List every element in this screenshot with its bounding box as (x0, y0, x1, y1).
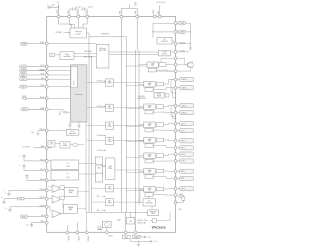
block gate drive (144, 138, 155, 144)
svg-text:+: + (53, 216, 54, 218)
pin right SLBO2+ (174, 104, 177, 107)
svg-text:+2.5 V REF: +2.5 V REF (22, 146, 30, 148)
pin VCP (86, 15, 89, 18)
label 4CO- box (177, 130, 180, 132)
pin right FOO- (174, 160, 177, 163)
wire dacpwm6 out (113, 187, 143, 189)
svg-text:LSI I/F: LSI I/F (74, 81, 76, 86)
label SLBO1- box (177, 87, 180, 89)
pin right N_COM (174, 50, 177, 53)
label FOO- box (177, 160, 180, 162)
pin right 4CO- (174, 129, 177, 132)
svg-text:CP1: CP1 (68, 11, 70, 14)
capacitor FB1 (8, 192, 11, 194)
pin left (45, 97, 48, 100)
wire AVDD in (48, 179, 56, 181)
wire FB1 opamp (48, 189, 52, 191)
svg-text:0.1 µF: 0.1 µF (88, 7, 93, 9)
svg-text:1 µ: 1 µ (67, 163, 69, 165)
label SLBO1+ box (177, 79, 180, 81)
block gate drive (144, 153, 155, 159)
wire gnd ext (138, 241, 140, 245)
label MUTE arrow (22, 97, 27, 100)
block out stage (157, 105, 164, 109)
op-amp A3 (52, 210, 61, 218)
small box adj2 (60, 196, 64, 199)
pin right 4CO+ (174, 122, 177, 125)
block out stage (157, 154, 164, 158)
block power monitor (60, 142, 70, 148)
svg-text:1 µF: 1 µF (31, 132, 34, 134)
svg-text:COM1: COM1 (162, 52, 166, 54)
label STBY box (21, 42, 28, 45)
wire to dac7 (92, 201, 106, 203)
wire core to dac1 (87, 82, 106, 84)
block tiny aux (166, 94, 169, 97)
bus wire v0 (85, 122, 87, 212)
wire VM bracket (121, 8, 137, 15)
wire decoder up (148, 196, 150, 199)
block lvl shift CH0 (148, 68, 156, 72)
svg-text:Datacom: Datacom (75, 93, 83, 96)
svg-text:0.1 µF: 0.1 µF (76, 7, 81, 9)
block DAC PWM (106, 122, 114, 129)
wire opamp2 out (61, 199, 63, 208)
capacitor COM gnd (189, 43, 192, 45)
wire CEN SE (177, 43, 190, 45)
wire det in2 (109, 54, 159, 56)
block gate drive (144, 104, 155, 110)
svg-text:DRV: DRV (151, 65, 154, 67)
svg-text:PGND2: PGND2 (87, 236, 89, 241)
block lvl shift (145, 193, 153, 197)
wire drv in (139, 106, 144, 108)
svg-text:+: + (47, 3, 48, 5)
pin ISEN (134, 231, 137, 234)
svg-text:XRST: XRST (40, 108, 44, 110)
label ISET box (20, 215, 28, 218)
wire ERC2 in (48, 170, 51, 172)
block COM detector (159, 50, 171, 56)
wire STBY across (48, 43, 96, 45)
label BLK box (20, 78, 28, 81)
svg-text:DRV: DRV (148, 156, 151, 158)
bus wire v1 (88, 50, 90, 212)
svg-text:SLBO2-: SLBO2- (181, 112, 187, 114)
label XLAT box (20, 74, 28, 77)
svg-text:CRV-: CRV- (178, 209, 182, 211)
wire dacpwm7 out (113, 191, 143, 203)
block out stage (157, 169, 164, 173)
block sense amp 1 (64, 188, 78, 197)
pin left (45, 179, 48, 182)
svg-text:2.5 V: 2.5 V (50, 144, 53, 146)
svg-text:(20.0k): (20.0k) (98, 229, 103, 231)
wire CH0 in (139, 64, 147, 66)
wire dacpwm4 out (112, 140, 143, 142)
svg-text:REF: REF (50, 142, 53, 144)
svg-text:−: − (53, 186, 54, 188)
wire insoct out (156, 212, 170, 220)
label +5V arrow 2 (144, 236, 147, 238)
wire TEST (27, 86, 45, 88)
pin right aux (174, 63, 177, 66)
resistor R2 (182, 197, 185, 201)
wire drv out1 (164, 188, 175, 190)
svg-text:OUT: OUT (148, 201, 151, 203)
block ref 2.5 (48, 140, 55, 147)
block lvl shift (145, 175, 153, 179)
wire N_COM (177, 51, 189, 53)
wire aux 58 (161, 57, 174, 59)
svg-text:TEST: TEST (40, 85, 44, 87)
wire drv out2 (152, 177, 174, 179)
svg-text:SPO+: SPO+ (181, 188, 185, 190)
block digital core (71, 65, 87, 122)
pin left (45, 129, 48, 132)
block sequencer (95, 157, 102, 182)
label A6O+ box (177, 170, 180, 172)
wire charge pump out (86, 33, 89, 50)
pin right CEN SE (174, 42, 177, 45)
pin right SLBO1- (174, 86, 177, 89)
bus wire v4 (138, 50, 140, 205)
block lvl shift (145, 128, 153, 132)
svg-text:SPW GEN: SPW GEN (84, 51, 92, 53)
wire Q1 source (177, 70, 190, 72)
pin left (45, 146, 48, 149)
pin left (45, 197, 48, 200)
wire drv out1 (164, 105, 175, 108)
svg-text:1 µF: 1 µF (51, 4, 54, 6)
block SW decode (96, 44, 109, 68)
wire osc out1 (74, 53, 96, 55)
label XRST box (21, 108, 28, 111)
bus wire VM1 (120, 18, 122, 212)
wire drv out2 (152, 146, 174, 148)
block gate drive CH0 (147, 62, 158, 68)
svg-text:VM3: VM3 (158, 11, 160, 14)
pin CP2 (77, 15, 80, 18)
block sense amp 2 (64, 205, 78, 214)
wire drv in (139, 170, 144, 172)
wire dacpwm1 out (113, 82, 143, 84)
block lvl shift (145, 159, 153, 163)
block out stage (157, 138, 164, 142)
wire drv out2 (152, 88, 174, 90)
wire sense 2 (173, 88, 176, 98)
svg-text:FOO+: FOO+ (181, 154, 185, 156)
resistor R1 (18, 197, 24, 200)
label TRO+ box (177, 140, 180, 142)
svg-text:+: + (53, 190, 54, 192)
wire bottom bus (86, 211, 148, 213)
pin right TRO+ (174, 139, 177, 142)
svg-text:SCLK: SCLK (21, 66, 25, 68)
label 4CO+ box (177, 123, 180, 125)
wire XRST in (48, 109, 64, 112)
wire CSET (32, 223, 46, 225)
pin right SLBO2- (174, 111, 177, 114)
capacitor CSET (30, 224, 33, 226)
svg-text:P2: P2 (59, 112, 61, 114)
svg-text:STEP CHG: STEP CHG (149, 211, 156, 213)
wire drv out1 (164, 80, 175, 85)
label ROSC box (50, 53, 55, 56)
svg-text:DRV: DRV (148, 141, 151, 143)
svg-text:TRO+: TRO+ (181, 141, 185, 143)
svg-text:oscillator: oscillator (63, 55, 70, 58)
pin left (45, 69, 48, 72)
wire dacpwm3 out (112, 124, 143, 126)
svg-text:8.5 V: 8.5 V (134, 5, 138, 7)
pin PGND2 (85, 231, 88, 234)
pin right SPO- (174, 194, 177, 197)
label SCLK box (20, 65, 28, 68)
label A6O- box (177, 178, 180, 180)
pin right A6O+ (174, 170, 177, 173)
capacitor FB3 (9, 209, 12, 211)
cap 3.3v (69, 125, 71, 129)
wire seq to dac (103, 165, 106, 167)
wire drv out2 (152, 194, 174, 197)
wire dacpwm2 out (113, 107, 143, 109)
svg-text:DRV: DRV (148, 107, 151, 109)
wire FB3 opamp (48, 206, 50, 208)
wire drv in (139, 139, 144, 141)
block out stage (157, 82, 164, 86)
capacitor C2 0.1uF (72, 8, 75, 10)
wire ref to seq1 (79, 163, 96, 165)
wire VREF in (48, 147, 51, 149)
block out decoder (143, 199, 155, 206)
svg-text:+5 V: +5 V (154, 241, 157, 243)
svg-text:TPIC2010: TPIC2010 (152, 225, 166, 229)
wire FB3 (10, 207, 45, 210)
pin left (45, 74, 48, 77)
pin right SLBO1+ (174, 78, 177, 81)
wire CH0 out1 (166, 64, 174, 66)
wire drv in (139, 188, 144, 190)
block stop chg (148, 210, 159, 216)
block DAC PWM (106, 137, 114, 144)
wire TEST in (48, 86, 71, 88)
bus wire ISEN (135, 50, 137, 231)
wire LO to pin (106, 228, 108, 231)
svg-text:DECODER: DECODER (145, 202, 152, 204)
svg-text:SLEW: SLEW (157, 94, 162, 96)
IC boundary TPIC2010 (47, 17, 176, 233)
label OSC box (20, 85, 28, 88)
wire senseamp2 out (77, 208, 86, 210)
svg-text:(4M): (4M) (117, 220, 121, 222)
svg-text:BLK: BLK (22, 79, 25, 81)
svg-text:DRV: DRV (148, 125, 151, 127)
svg-text:COM1: COM1 (180, 23, 184, 25)
block charge pump (70, 28, 86, 38)
wire CH0 out2 (155, 70, 174, 71)
wire COM ctl out (172, 41, 174, 44)
pin DGND (76, 231, 79, 234)
wire sense 1 (171, 80, 176, 94)
bus wire v2 (91, 56, 93, 212)
block DAC PWM (106, 104, 114, 111)
wire aux 71 (149, 70, 174, 72)
capacitor FB2 (3, 200, 6, 202)
label CPVSS box (125, 234, 127, 235)
wire CP pins to charge pump (59, 18, 72, 28)
svg-text:TEST: TEST (21, 87, 25, 89)
capacitor C1 1uF (49, 6, 51, 9)
pin right aux (174, 70, 177, 73)
pin AGND (66, 231, 69, 234)
svg-text:CP: CP (163, 39, 165, 41)
wire drv out1 (164, 170, 175, 172)
svg-text:OVERVLD: OVERVLD (101, 34, 110, 36)
svg-text:SP2: SP2 (97, 210, 100, 212)
wire stopchg up (151, 206, 153, 210)
block gate drive (144, 82, 155, 88)
pin right COM2 (174, 30, 177, 33)
wire SCLK (27, 66, 45, 68)
block DAC PWM (106, 79, 114, 86)
pin right aux (174, 201, 177, 204)
svg-text:COM2: COM2 (180, 32, 184, 34)
label AGND (66, 234, 68, 236)
wire FB2 opamp (48, 198, 52, 200)
block gate drive (144, 187, 155, 193)
label DGND (76, 234, 78, 236)
svg-text:4CO+: 4CO+ (181, 123, 185, 125)
wire core to dac3 (87, 124, 106, 126)
svg-text:CP2: CP2 (77, 11, 79, 14)
label COM2 box (177, 31, 179, 33)
svg-text:DRV: DRV (148, 85, 151, 87)
transistor Q1 (188, 62, 194, 68)
pin PGND1 (153, 15, 156, 18)
wire ERC2 network (24, 167, 45, 171)
label SPO+ box (177, 188, 180, 190)
small box adj1 (60, 186, 64, 189)
block gate drive (144, 122, 155, 128)
pin left (45, 85, 48, 88)
svg-text:DRV: DRV (148, 172, 151, 174)
capacitor ERC1 (23, 156, 26, 158)
capacitor ERC2 (23, 166, 26, 168)
svg-text:VM1: VM1 (119, 11, 121, 14)
pin right aux (174, 57, 177, 60)
svg-text:−: − (53, 212, 54, 214)
wire FB2 (24, 198, 45, 200)
wire COM1 (153, 23, 174, 37)
bus wire VM2 (136, 18, 138, 50)
wire COM2 (153, 31, 174, 33)
svg-text:CONTROL: CONTROL (161, 41, 168, 43)
svg-text:S.1 GN: S.1 GN (97, 135, 102, 137)
svg-text:SENSE: SENSE (68, 190, 73, 192)
pin VM2 (136, 15, 139, 18)
svg-text:pump: pump (76, 34, 82, 36)
block oscillator (60, 52, 74, 60)
wire RV- stub (177, 200, 183, 202)
svg-text:CPUMP: CPUMP (55, 32, 62, 34)
label FOO+ box (177, 153, 180, 155)
pin CPVSS (124, 231, 127, 234)
wire RV+ stub (177, 195, 183, 197)
wire VDD33 (38, 130, 45, 132)
svg-text:−: − (53, 197, 54, 199)
pin right TRO- (174, 146, 177, 149)
wire serial bus (48, 66, 71, 68)
wire opamp3 out (59, 213, 64, 215)
wire ISET (28, 215, 45, 217)
label SLBO2- box (177, 112, 180, 114)
wire CM down (129, 212, 131, 217)
label SDATA box (20, 69, 28, 72)
op-amp A1 (52, 185, 61, 193)
block lvl shift (145, 144, 153, 148)
capacitor C4 (37, 131, 39, 134)
wire drv in (139, 155, 144, 157)
wire ERC1 in (48, 160, 51, 162)
pin left (45, 205, 48, 208)
svg-text:MUTE: MUTE (40, 97, 45, 99)
block COM control (157, 38, 172, 45)
wire isen to CM (135, 224, 137, 231)
wire ncom (171, 51, 174, 53)
block DAC PWM tall (106, 158, 115, 179)
block out stage CH0 (159, 63, 166, 67)
pin left (45, 78, 48, 81)
gate por or (73, 143, 78, 146)
bus wire v3 (125, 37, 127, 212)
svg-text:4CO-: 4CO- (181, 130, 185, 132)
svg-text:R2: R2 (59, 114, 61, 116)
svg-text:100: 100 (20, 199, 23, 201)
wire VREF (34, 147, 46, 149)
ground cap under core (78, 122, 80, 126)
wire agnd up (66, 225, 68, 231)
block osc LO (102, 221, 111, 227)
svg-text:FOO-: FOO- (181, 161, 185, 163)
block slew rate (154, 92, 164, 98)
svg-text:(20 M): (20 M) (97, 226, 102, 228)
wire BLK (27, 78, 45, 80)
op-amp A2 (52, 196, 61, 204)
pin left (45, 169, 48, 172)
wire +5V ext (129, 239, 131, 242)
wire XRST (28, 108, 45, 110)
wire core to dac2 (87, 107, 106, 109)
pin left (45, 108, 48, 111)
wire ERC1 network (24, 157, 45, 161)
wire FB1 (9, 190, 45, 193)
label +5V arrow (150, 240, 153, 242)
wire dgnd up (76, 222, 78, 231)
wire VM3 up (159, 5, 161, 15)
svg-text:TRO-: TRO- (181, 148, 185, 150)
wire osc out2 (74, 56, 96, 58)
svg-text:DRV: DRV (148, 190, 151, 192)
pin left (45, 189, 48, 192)
wire Q1 drain (177, 64, 187, 66)
wire SDATA (27, 70, 45, 72)
pin left (45, 65, 48, 68)
svg-text:XRST: XRST (23, 109, 27, 111)
svg-text:DECODE: DECODE (99, 50, 107, 52)
pin VDD5 (57, 15, 60, 18)
wire det in1 (109, 51, 159, 53)
